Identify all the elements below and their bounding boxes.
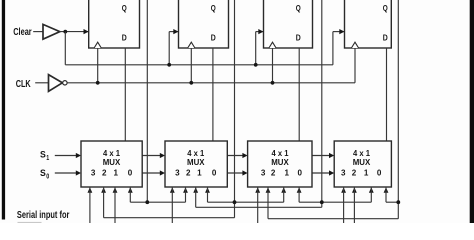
bubble CLK buffer output [63,81,67,85]
arrow S1 into MUX2 [160,153,165,158]
arrow into FF3 CLR [258,29,263,34]
node clear junction FF2 [167,63,171,67]
wire MUX2 in1 drop [195,187,197,207]
svg-text:2: 2 [186,168,191,178]
svg-text:2: 2 [102,168,107,178]
wire Q1 net rise to MUX2 in2 [185,187,187,202]
arrow S1 into MUX3 [242,153,247,158]
arrow input 2 of U2 [183,187,188,192]
svg-text:1: 1 [197,168,202,178]
svg-text:Q: Q [383,3,388,13]
wire Q3 to MUX2 rail [196,206,322,208]
wire I1 parallel input drop (MUX1 in3) [89,187,91,224]
wire CLK rail [67,82,355,84]
flip-flop FF1 [89,0,140,48]
node Clear junction [63,30,67,34]
arrow into FF1 CLR [84,29,89,34]
flip-flop FF3 [264,0,313,48]
wire MUX4 output to D of FF4 [386,48,388,141]
label shift right (cut off) [18,222,42,223]
wire I3 parallel input drop (MUX3 in3) [257,187,259,224]
node clock junction FF3 [271,81,275,85]
wire Q4 to MUX3 in2 rail [268,218,398,220]
wire S0 rail MUX1 to MUX2 [142,172,161,174]
mux U1 4x1 [81,141,142,187]
flip-flop FF4 [345,0,392,48]
svg-text:1: 1 [114,168,119,178]
wire Q4 net rail A segment [386,201,398,203]
wire Q2 net rail A segment [208,201,284,203]
svg-text:Clear: Clear [13,27,32,38]
arrow input 3 of U4 [341,187,346,192]
node Q4 tap junction [396,200,400,204]
arrow S1 into MUX1 [76,153,81,158]
svg-text:0: 0 [212,168,217,178]
wire Q1 tap vertical [146,0,148,202]
wire S0 rail MUX3 to MUX4 [312,172,330,174]
buffer Clear [43,24,60,39]
wire Q3 tap vertical [321,0,323,207]
svg-text:D: D [383,32,388,42]
arrow S0 into MUX4 [329,170,334,175]
arrow into FF2 CLR [173,29,178,34]
wire CLK label to buffer [35,82,48,84]
arrow input 1 of U1 [113,187,118,192]
mux U4 4x1 [334,141,391,187]
svg-text:D: D [296,32,301,42]
arrow input 2 of U3 [266,187,271,192]
wire MUX3 in2 drop [267,187,269,219]
wire Q2 tap vertical [234,0,236,218]
node clock junction FF1 [96,81,100,85]
wire S1 rail MUX1 to MUX2 [142,155,161,157]
svg-text:0: 0 [297,168,302,178]
svg-text:0: 0 [377,168,382,178]
svg-text:CLK: CLK [16,79,31,90]
svg-text:0: 0 [128,168,133,178]
wire S1 rail MUX3 to MUX4 [312,155,330,157]
arrow S0 into MUX2 [160,170,165,175]
arrow input 3 of U3 [255,187,260,192]
mux U2 4x1 [165,141,227,187]
mux U3 4x1 [248,141,312,187]
wire Q3 net rail A segment [299,201,371,203]
wire Q2 net: MUX2 in0 to rail A [207,187,209,202]
svg-text:Q: Q [211,3,216,13]
wire MUX3 output to D of FF3 [298,48,300,141]
wire Q1 net: MUX1 in0 to rail A [129,187,131,202]
wire Clear rail [65,64,333,66]
wire MUX1 in2 drop [103,187,105,218]
node Q1 tap junction [145,200,149,204]
wire MUX1 output to D of FF1 [124,48,126,141]
svg-text:3: 3 [175,168,180,178]
wire Q2 net rise to MUX3 in1 [283,187,285,202]
clock caret FF3 [269,42,276,48]
arrow input 2 of U4 [352,187,357,192]
wire clock stub FF2 [190,48,192,83]
left page border bar [2,0,5,220]
wire serial input shift-left drop (MUX4 in2) [353,187,355,224]
svg-text:MUX: MUX [271,157,289,167]
wire Q2 to MUX1 in2 rail [104,217,235,219]
wire clock stub FF1 [97,48,99,83]
wire Clear label to buffer [33,31,43,33]
clock caret FF1 [94,42,101,48]
wire Q1 net rail A segment [130,201,185,203]
wire Q4 net: MUX4 in0 to rail A [385,187,387,202]
arrow input 0 of U3 [297,187,302,192]
arrow into FF4 CLR [339,29,344,34]
wire clock stub FF4 [354,48,356,83]
svg-text:Serial input for: Serial input for [17,209,70,221]
wire clear stub FF2 [168,32,170,65]
arrow input 3 of U2 [170,187,175,192]
svg-text:Q: Q [296,3,301,13]
svg-text:Q: Q [122,3,127,13]
arrow input 0 of U2 [205,187,210,192]
wire Clear vertical drop [64,32,66,65]
wire S0 into MUX1 [55,172,77,174]
arrow input 0 of U1 [128,187,133,192]
svg-text:3: 3 [341,168,346,178]
svg-text:MUX: MUX [353,157,371,167]
svg-text:0: 0 [46,174,49,181]
wire I2 parallel input drop (MUX2 in3) [171,187,173,224]
node Q3 tap junction [320,200,324,204]
svg-text:3: 3 [261,168,266,178]
flip-flop FF2 [179,0,229,48]
wire Q3 net: MUX3 in0 to rail A [298,187,300,202]
node Q2 tap junction [233,200,237,204]
arrow input 1 of U2 [193,187,198,192]
wire clear stub FF4 [332,32,334,65]
svg-text:1: 1 [46,155,49,162]
wire I4 parallel input drop (MUX4 in3) [343,187,345,224]
svg-text:2: 2 [271,168,276,178]
svg-text:MUX: MUX [187,157,205,167]
wire S1 rail MUX2 to MUX3 [227,155,243,157]
wire Q3 net rise to MUX4 in1 [370,187,372,202]
node clock junction FF2 [189,81,193,85]
svg-text:D: D [211,32,216,42]
svg-text:1: 1 [284,168,289,178]
arrow S0 into MUX3 [242,170,247,175]
arrow input 3 of U1 [88,187,93,192]
clock caret FF4 [351,42,358,48]
arrow input 1 of U3 [281,187,286,192]
wire clear stub FF3 [255,32,257,65]
svg-text:1: 1 [364,168,369,178]
svg-text:2: 2 [352,168,357,178]
wire serial input shift-right drop (MUX1 in1) [114,187,116,224]
right page border bar [470,0,474,223]
wire S0 rail MUX2 to MUX3 [227,172,243,174]
node clear junction FF3 [254,63,258,67]
arrow S0 into MUX1 [76,170,81,175]
wire MUX2 output to D of FF2 [212,48,214,141]
wire Q4 tap vertical [397,0,399,219]
arrow input 0 of U4 [384,187,389,192]
svg-text:D: D [122,32,127,42]
clock caret FF2 [188,42,195,48]
svg-text:S: S [40,150,46,161]
wire clock stub FF3 [272,48,274,83]
svg-text:MUX: MUX [103,157,121,167]
svg-text:3: 3 [91,168,96,178]
wire S1 into MUX1 [55,155,77,157]
arrow input 1 of U4 [369,187,374,192]
arrow S1 into MUX4 [329,153,334,158]
buffer CLK [49,75,63,92]
wire Clear buffer to FF1 [60,31,89,33]
arrow input 2 of U1 [101,187,106,192]
svg-text:S: S [40,168,46,179]
